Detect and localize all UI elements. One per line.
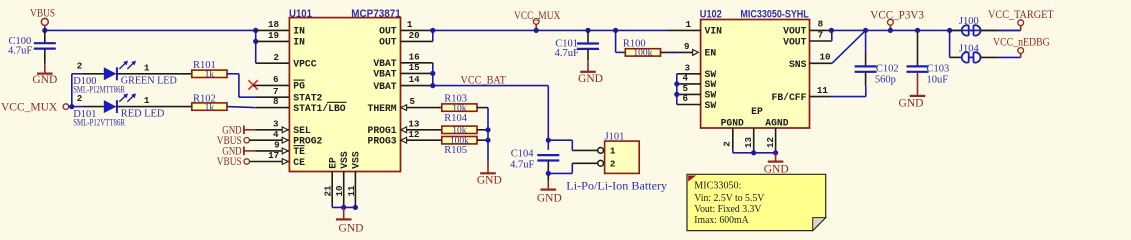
svg-text:16: 16 <box>409 51 420 62</box>
svg-text:STAT2: STAT2 <box>293 93 322 104</box>
svg-text:7: 7 <box>273 86 279 97</box>
svg-text:VCC_nEDBG: VCC_nEDBG <box>993 36 1050 48</box>
junction R105 <box>485 138 490 143</box>
svg-text:MIC33050:: MIC33050: <box>694 180 741 191</box>
svg-text:IN: IN <box>293 37 305 48</box>
pin 19 <box>256 40 290 42</box>
svg-text:17: 17 <box>268 150 279 161</box>
wire VSS merge <box>331 203 333 207</box>
wire PGND merge <box>732 148 734 153</box>
svg-text:PROG3: PROG3 <box>368 136 397 147</box>
ground GND under C104 <box>547 181 549 190</box>
wire VCC_MUX to LEDs <box>69 106 83 108</box>
svg-text:VCC_P3V3: VCC_P3V3 <box>870 10 924 22</box>
svg-text:9: 9 <box>274 140 280 151</box>
svg-text:R104: R104 <box>444 113 468 124</box>
pin 21 EP <box>331 172 333 204</box>
junction VBAT14 <box>430 83 435 88</box>
wire SW merge <box>676 74 678 105</box>
svg-text:SW: SW <box>705 79 717 90</box>
junction LED branch <box>69 104 74 109</box>
svg-text:12: 12 <box>765 137 776 148</box>
pin 11 VSS <box>354 172 356 208</box>
svg-text:EN: EN <box>705 48 717 59</box>
junction J104 branch <box>947 28 952 33</box>
svg-text:1: 1 <box>685 19 691 30</box>
pin 12 PROG3 <box>401 137 407 143</box>
svg-text:SW: SW <box>705 100 717 111</box>
junction EP <box>751 150 756 155</box>
svg-text:GND: GND <box>537 193 562 205</box>
junction VSS11 <box>353 205 358 210</box>
junction VBAT15 <box>430 71 435 76</box>
pin 9 EN arrow <box>693 50 699 56</box>
svg-text:RED LED: RED LED <box>121 108 165 119</box>
svg-text:8: 8 <box>273 96 279 107</box>
svg-text:SEL: SEL <box>293 125 311 136</box>
svg-text:PROG1: PROG1 <box>368 125 397 136</box>
svg-text:VCC_MUX: VCC_MUX <box>514 10 561 22</box>
wire J104 to VCC_nEDBG <box>998 56 1021 58</box>
pin 1 OUT <box>401 29 433 31</box>
junction VOUT <box>829 28 834 33</box>
svg-text:13: 13 <box>743 136 754 148</box>
svg-text:OUT: OUT <box>379 26 397 37</box>
svg-text:560p: 560p <box>875 75 896 86</box>
pin 7 VOUT <box>810 40 832 42</box>
svg-text:13: 13 <box>408 118 420 129</box>
svg-text:1k: 1k <box>205 103 215 113</box>
svg-text:VBUS: VBUS <box>30 8 55 20</box>
junction VCC_MUX stem <box>534 28 539 33</box>
junction battery pin1 <box>546 138 551 143</box>
svg-text:GND: GND <box>477 174 502 186</box>
wire D101 cathode to R102 <box>117 106 192 108</box>
svg-text:VOUT: VOUT <box>783 26 806 37</box>
svg-text:STAT1/LBO: STAT1/LBO <box>293 103 346 114</box>
svg-text:5: 5 <box>409 96 415 107</box>
transistor U102 MIC33050-SYHL body <box>701 20 810 129</box>
ground GND under C100 <box>44 64 46 74</box>
svg-text:VOUT: VOUT <box>783 36 806 47</box>
wire R102 to STAT1 <box>227 107 255 108</box>
pin 13 PROG1 <box>401 127 407 133</box>
svg-text:GND: GND <box>578 73 603 85</box>
pin 12 AGND <box>775 128 777 153</box>
op-amp U101 MCP73871 body <box>289 18 400 172</box>
wire U101 IN pins <box>255 30 257 63</box>
pin 10 VSS <box>343 172 345 208</box>
wire to R100 <box>615 30 617 52</box>
svg-text:Li-Po/Li-Ion Battery: Li-Po/Li-Ion Battery <box>566 178 667 192</box>
junction OUT <box>430 28 435 33</box>
svg-text:C102: C102 <box>876 63 899 74</box>
svg-text:EP: EP <box>751 106 763 117</box>
svg-text:14: 14 <box>409 74 421 85</box>
pin 11 FB/CFF <box>810 96 832 98</box>
pins 3-6 SW <box>677 73 701 75</box>
svg-text:12: 12 <box>408 129 419 140</box>
svg-text:VBAT: VBAT <box>373 58 396 69</box>
wire VCC_BAT down <box>547 86 549 150</box>
wire J100 to VCC_TARGET <box>998 29 1021 31</box>
svg-text:4: 4 <box>273 129 279 140</box>
wire D100 cathode to R101 <box>117 73 192 75</box>
junction R104 <box>485 127 490 132</box>
svg-text:GND: GND <box>32 74 57 86</box>
svg-text:VBAT: VBAT <box>373 69 396 80</box>
svg-text:C104: C104 <box>511 149 535 160</box>
wire R100 to EN <box>661 51 693 53</box>
svg-text:10uF: 10uF <box>927 75 949 86</box>
svg-text:6: 6 <box>682 93 688 104</box>
wire down to J104 <box>949 30 951 57</box>
svg-text:SML-P12VTT86R: SML-P12VTT86R <box>73 118 125 128</box>
pin 5 THERM <box>401 105 407 111</box>
svg-text:1: 1 <box>610 146 616 157</box>
svg-text:9: 9 <box>684 41 690 52</box>
ground GND under C101 <box>587 60 589 72</box>
svg-text:VCC_MUX: VCC_MUX <box>1 101 58 113</box>
svg-text:U101: U101 <box>289 8 312 20</box>
svg-text:10: 10 <box>820 52 831 63</box>
wire to J101 pin 2 <box>548 172 572 174</box>
wire resistor net to GND <box>477 107 488 109</box>
svg-text:2: 2 <box>77 60 83 71</box>
svg-text:TE: TE <box>293 146 305 157</box>
resistor R105 <box>442 137 477 144</box>
ground GND under U102 <box>775 153 777 162</box>
svg-text:IN: IN <box>293 26 305 37</box>
svg-text:THERM: THERM <box>368 103 397 114</box>
svg-text:1k: 1k <box>205 70 215 80</box>
svg-text:EP: EP <box>328 157 339 169</box>
wire SNS diagonal <box>832 30 866 63</box>
junction C103 <box>915 28 920 33</box>
svg-text:7: 7 <box>818 30 824 41</box>
pin 20 OUT <box>401 40 433 42</box>
svg-text:6: 6 <box>273 74 279 85</box>
svg-text:PROG2: PROG2 <box>293 136 322 147</box>
wire OUT to VIN <box>433 29 668 31</box>
svg-text:1: 1 <box>144 62 150 73</box>
svg-text:PGND: PGND <box>721 118 744 129</box>
pin 6 PG <box>253 84 289 86</box>
svg-text:Vout: Fixed 3.3V: Vout: Fixed 3.3V <box>694 204 761 215</box>
svg-text:VPCC: VPCC <box>293 59 316 70</box>
svg-text:VSS: VSS <box>339 151 350 169</box>
svg-text:2: 2 <box>610 159 616 170</box>
svg-text:3: 3 <box>273 118 279 129</box>
wire to J101 pin 1 <box>548 139 572 141</box>
junction VSS10 <box>341 205 346 210</box>
ground GND under C103 <box>917 72 919 96</box>
svg-text:VSS: VSS <box>351 151 362 169</box>
pin 8 top wire to right <box>831 29 1020 31</box>
no-connect X on pin 6 <box>248 80 257 89</box>
svg-text:VBAT: VBAT <box>373 81 396 92</box>
capacitor C103 <box>917 30 919 66</box>
pin 18 <box>256 29 290 31</box>
junction P3V3 <box>888 28 893 33</box>
wire VBAT merge <box>432 63 434 86</box>
svg-text:GREEN LED: GREEN LED <box>121 76 177 87</box>
svg-text:8: 8 <box>818 19 824 30</box>
svg-text:2: 2 <box>722 141 733 147</box>
svg-text:1: 1 <box>144 95 150 106</box>
pin 15 VBAT <box>401 72 433 74</box>
svg-text:15: 15 <box>409 62 421 73</box>
svg-text:11: 11 <box>346 185 357 197</box>
svg-text:10: 10 <box>334 185 345 196</box>
svg-text:C103: C103 <box>927 63 950 74</box>
junction SW4 <box>674 81 679 86</box>
pin 2 VPCC <box>256 62 290 64</box>
pin 14 VBAT <box>401 85 433 87</box>
junction C101 <box>585 28 590 33</box>
svg-text:VIN: VIN <box>705 26 723 37</box>
junction AGND <box>773 150 778 155</box>
svg-text:SNS: SNS <box>789 59 807 70</box>
svg-text:11: 11 <box>817 85 829 96</box>
svg-text:CE: CE <box>293 157 305 168</box>
pin 16 VBAT <box>401 62 433 64</box>
pin 8 STAT1 <box>255 107 289 109</box>
pin 1 VIN <box>668 29 701 31</box>
svg-text:FB/CFF: FB/CFF <box>772 92 807 103</box>
svg-text:20: 20 <box>409 30 420 41</box>
junction SNS/C102 <box>863 28 868 33</box>
ground GND under resistors <box>487 162 489 174</box>
junction VBUS/C100 <box>42 28 47 33</box>
svg-text:VBUS: VBUS <box>217 156 242 168</box>
svg-text:PG: PG <box>293 81 305 92</box>
svg-text:Vin: 2.5V to 5.5V: Vin: 2.5V to 5.5V <box>694 193 764 204</box>
svg-text:18: 18 <box>268 19 280 30</box>
wire to D100 anode <box>71 74 73 107</box>
capacitor C102 <box>865 30 867 52</box>
wire FB to C102 <box>832 96 866 98</box>
svg-text:OUT: OUT <box>379 37 397 48</box>
pin 13 EP <box>753 128 755 153</box>
pin 8 VOUT <box>810 29 832 31</box>
wire VBUS to U101 IN <box>45 29 256 31</box>
svg-text:2: 2 <box>273 52 279 63</box>
svg-text:GND: GND <box>899 97 924 109</box>
junction R100 branch <box>613 28 618 33</box>
svg-text:Imax: 600mA: Imax: 600mA <box>694 215 749 226</box>
note MIC33050 info box <box>687 174 826 230</box>
svg-text:MIC33050-SYHL: MIC33050-SYHL <box>740 8 809 20</box>
pin 10 SNS <box>810 62 833 64</box>
svg-text:100k: 100k <box>633 49 652 59</box>
junction battery pin2 <box>546 171 551 176</box>
svg-text:21: 21 <box>323 185 334 197</box>
svg-text:4.7uF: 4.7uF <box>510 160 534 171</box>
svg-text:2: 2 <box>77 93 83 104</box>
pin 2 PGND <box>732 128 734 148</box>
svg-text:U102: U102 <box>700 8 722 20</box>
svg-text:4.7uF: 4.7uF <box>555 48 579 59</box>
svg-text:MCP73871: MCP73871 <box>351 8 401 20</box>
svg-text:VCC_BAT: VCC_BAT <box>461 74 506 86</box>
svg-text:10k: 10k <box>452 126 467 136</box>
svg-text:R105: R105 <box>444 145 467 156</box>
svg-text:1: 1 <box>407 19 413 30</box>
junction SW5 <box>674 92 679 97</box>
svg-text:19: 19 <box>268 30 279 41</box>
wire VCC_BAT <box>433 85 549 87</box>
wire R101 to STAT2 <box>227 73 239 75</box>
wire VOUT7 up <box>831 30 833 41</box>
junction IN pin18 <box>253 28 258 33</box>
pin 7 STAT2 <box>255 96 289 98</box>
svg-text:4.7uF: 4.7uF <box>8 46 32 57</box>
ground GND under U101 <box>343 207 345 219</box>
svg-text:GND: GND <box>339 222 364 234</box>
junction IN pin19 <box>253 39 258 44</box>
svg-text:AGND: AGND <box>765 118 788 129</box>
wire OUT merge <box>432 30 434 41</box>
svg-text:4: 4 <box>682 73 688 84</box>
